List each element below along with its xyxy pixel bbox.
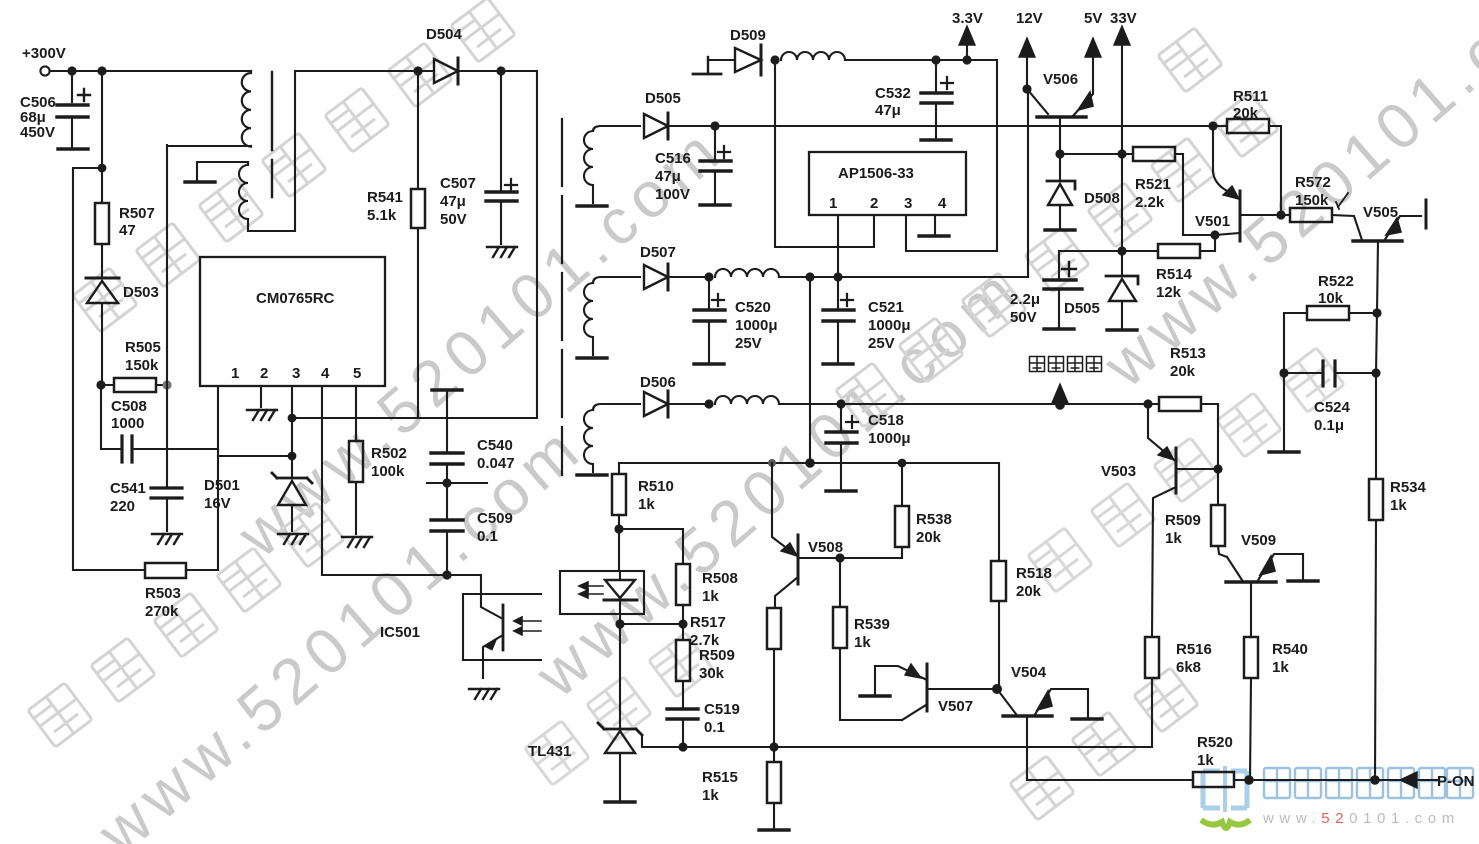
svg-text:R518: R518: [1016, 565, 1052, 582]
junction R540 bottom: [1244, 775, 1254, 785]
svg-text:3.3V: 3.3V: [952, 10, 983, 27]
svg-text:R534: R534: [1390, 479, 1427, 496]
junction R513 left: [1143, 399, 1152, 408]
capacitor C519: [667, 709, 698, 747]
ground bar under W1: [577, 205, 607, 207]
svg-text:C532: C532: [875, 85, 911, 102]
capacitor C521: [823, 277, 854, 362]
junction on +300V rail at R507 branch: [97, 66, 106, 75]
ground bar under W2: [577, 357, 607, 359]
svg-text:2.7k: 2.7k: [690, 632, 720, 649]
junction 747-rail R515: [769, 742, 778, 751]
junction V503 base R509: [1213, 464, 1222, 473]
logo mark: [1203, 766, 1247, 812]
ground under IC501: [469, 689, 499, 699]
junction left of R505: [96, 380, 105, 389]
transformer T core: [271, 72, 273, 197]
wire R502 to ground: [355, 482, 357, 534]
svg-text:R509: R509: [1165, 512, 1201, 529]
wire LED anode from R510 node: [618, 529, 620, 571]
ground bar under C516: [700, 204, 730, 206]
wire feedback winding bottom to top rail: [248, 71, 417, 231]
svg-text:33V: 33V: [1110, 10, 1137, 27]
wire junction to R507: [101, 168, 103, 203]
svg-text:R507: R507: [119, 205, 155, 222]
svg-text:47μ: 47μ: [440, 193, 466, 210]
resistor R520: [1193, 772, 1249, 787]
logo CJK blue text: [1264, 768, 1473, 798]
wire 277-rail to 12V corner: [779, 89, 1028, 277]
svg-text:2.2μ: 2.2μ: [1010, 291, 1040, 308]
IC AP1506-33 box: [809, 152, 966, 215]
svg-text:47μ: 47μ: [655, 168, 681, 185]
svg-text:www.520101.com: www.520101.com: [1262, 810, 1460, 827]
optocoupler LED box: [560, 571, 644, 614]
svg-text:D505: D505: [1064, 300, 1100, 317]
secondary winding W1: [584, 131, 593, 203]
svg-text:2: 2: [870, 195, 878, 212]
capacitor C508: [122, 436, 132, 462]
junction C518 top: [836, 399, 845, 408]
label sound amp CJK: [1030, 357, 1102, 372]
svg-text:C520: C520: [735, 299, 771, 316]
svg-text:D509: D509: [730, 27, 766, 44]
svg-text:C540: C540: [477, 437, 513, 454]
wire pin2 stub and ground: [260, 386, 262, 407]
wire P-ON line right: [1249, 779, 1375, 781]
wire pin1 column to 277-rail: [837, 215, 839, 277]
terminal bar at V505 emitter: [1425, 200, 1428, 228]
wire R509 to C519: [682, 624, 684, 708]
terminal bar above C540: [432, 389, 462, 391]
svg-text:R541: R541: [367, 189, 403, 206]
ground bar under C518: [826, 490, 856, 492]
resistor R522: [1284, 306, 1377, 373]
svg-text:25V: 25V: [868, 335, 895, 352]
svg-text:C509: C509: [477, 510, 513, 527]
resistor R540: [1244, 637, 1258, 780]
ground bar at V507 emitter: [860, 695, 890, 697]
svg-text:50V: 50V: [440, 211, 467, 228]
junction C524 left: [1279, 368, 1288, 377]
svg-text:R511: R511: [1233, 88, 1268, 105]
wire C508 left lead: [101, 385, 122, 449]
svg-text:1k: 1k: [1165, 530, 1182, 547]
capacitor C532: [921, 60, 953, 138]
resistor R538: [895, 463, 909, 558]
ground bar under R515: [759, 829, 789, 831]
wire D503 to node: [101, 303, 103, 384]
svg-text:R521: R521: [1135, 176, 1171, 193]
svg-text:C507: C507: [440, 175, 476, 192]
resistor R517: [767, 608, 781, 747]
svg-text:270k: 270k: [145, 603, 179, 620]
junction V508 base R539: [835, 553, 844, 562]
label arrow sound supply: [1052, 384, 1068, 404]
junction pin3 at D501 line: [288, 452, 297, 461]
wire V505 collector column: [1376, 313, 1377, 479]
svg-text:1: 1: [231, 365, 239, 382]
svg-text:0.1μ: 0.1μ: [1314, 417, 1344, 434]
svg-text:R516: R516: [1176, 641, 1212, 658]
svg-text:TL431: TL431: [528, 743, 571, 760]
wire C508 line to pin1 column: [167, 448, 218, 450]
junction pin3 at 418-line: [288, 414, 297, 423]
ground bar under D508: [1045, 229, 1075, 231]
svg-text:D503: D503: [123, 284, 159, 301]
svg-text:5V: 5V: [1084, 10, 1102, 27]
wire C509 bottom: [446, 531, 448, 575]
junction 33V R514: [1117, 246, 1126, 255]
transistor V503: [1148, 404, 1218, 637]
resistor R508: [676, 564, 690, 605]
wire R508 bottom: [682, 605, 684, 624]
svg-text:V503: V503: [1101, 463, 1136, 480]
junction sound arrow on 404-rail: [1055, 400, 1065, 410]
wire 154-line: [1060, 153, 1131, 155]
svg-text:C521: C521: [868, 299, 904, 316]
svg-text:0.047: 0.047: [477, 455, 515, 472]
junction on +300V rail at C506: [67, 66, 76, 75]
watermark band CJK top-right: [836, 28, 1278, 427]
resistor R503: [145, 563, 186, 578]
wire C524 left stub to bar: [1283, 373, 1285, 450]
zener D505b: [1106, 276, 1138, 328]
capacitor C 2.2u: [1044, 251, 1082, 327]
wire to P-ON arrow: [1375, 779, 1400, 781]
wire W1 top lead: [593, 126, 640, 131]
capacitor C516: [700, 126, 731, 203]
IC CM0765RC box: [200, 257, 385, 386]
capacitor C507: [486, 179, 517, 201]
watermark band CJK right-middle: [1028, 348, 1344, 592]
svg-text:12V: 12V: [1016, 10, 1043, 27]
junction 277-rail C521: [833, 272, 842, 281]
resistor R518: [991, 561, 1006, 601]
wire C507 stem: [500, 71, 502, 190]
svg-text:R514: R514: [1156, 266, 1193, 283]
junction D505 output: [710, 121, 719, 130]
svg-text:V504: V504: [1011, 664, 1047, 681]
svg-text:C508: C508: [111, 398, 147, 415]
inductor L 3.3V: [781, 52, 845, 60]
svg-text:4: 4: [938, 195, 947, 212]
junction left of D504: [413, 66, 422, 75]
svg-text:V506: V506: [1043, 71, 1078, 88]
svg-text:D506: D506: [640, 374, 676, 391]
ground under C541: [152, 534, 182, 544]
wire C541 stem: [166, 449, 168, 487]
junction at 102,168: [98, 164, 107, 173]
wire 33V column to D505 zener: [1121, 154, 1123, 274]
ground bar under C520: [694, 363, 724, 365]
wire C508 right lead: [132, 448, 167, 450]
wire R541 bottom to 418-line: [417, 228, 419, 418]
svg-text:AP1506-33: AP1506-33: [838, 165, 914, 182]
junction 3.3V arrow: [962, 55, 971, 64]
wire LED cathode link: [621, 623, 683, 625]
resistor R534: [1369, 479, 1383, 780]
junction 33V at 154-line: [1117, 149, 1126, 158]
power arrow 3.3V: [959, 26, 975, 60]
svg-text:4: 4: [321, 365, 330, 382]
wire left branch to 73-column: [73, 168, 102, 570]
svg-text:1000μ: 1000μ: [868, 430, 911, 447]
pen tick near R572: [1336, 193, 1348, 209]
junction D509 cathode: [770, 55, 779, 64]
ground bar under 2.2u: [1044, 328, 1074, 330]
svg-text:V505: V505: [1363, 204, 1398, 221]
svg-text:20k: 20k: [916, 529, 942, 546]
svg-text:1k: 1k: [1197, 752, 1214, 769]
logo green brace: [1201, 820, 1250, 828]
transistor V501: [1213, 126, 1281, 241]
resistor R511: [1213, 119, 1281, 215]
svg-text:1k: 1k: [638, 496, 655, 513]
capacitor C540: [431, 453, 463, 464]
resistor R515: [767, 747, 781, 828]
svg-text:R538: R538: [916, 511, 952, 528]
wire C541 to ground: [166, 498, 168, 531]
node +300V terminal: [40, 66, 49, 75]
wire C507 to ground: [500, 201, 502, 244]
junction right of R505: [162, 380, 171, 389]
wire R507 branch down from rail: [101, 71, 103, 168]
svg-text:C524: C524: [1314, 399, 1351, 416]
resistor R502: [349, 441, 363, 482]
wire R507 to D503: [101, 244, 103, 277]
transformer T feedback winding: [239, 162, 248, 231]
wire 167-column primary bottom to R505: [166, 145, 168, 449]
power arrow 5V: [1085, 38, 1101, 57]
ground bar under C506: [58, 148, 88, 150]
transistor V506: [1027, 57, 1093, 154]
junction 463-rail R538: [898, 459, 907, 468]
svg-text:150k: 150k: [125, 357, 159, 374]
transistor V509: [1226, 554, 1303, 637]
svg-text:V501: V501: [1195, 213, 1230, 230]
junction right of D504: [496, 66, 505, 75]
wire 418-line: [292, 417, 537, 419]
optocoupler LED: [579, 571, 637, 624]
junction R534 bottom: [1370, 775, 1380, 785]
ground bar under C521: [823, 363, 853, 365]
svg-text:P-ON: P-ON: [1437, 773, 1475, 790]
transformer secondary core: [561, 119, 563, 475]
wire C540 top stem: [446, 390, 448, 452]
svg-text:D507: D507: [640, 244, 676, 261]
ground bar under TL431: [605, 801, 635, 803]
wire pin5 stub: [355, 386, 357, 441]
svg-text:220: 220: [110, 498, 135, 515]
svg-text:2.2k: 2.2k: [1135, 194, 1165, 211]
wire pin1 column: [217, 386, 219, 570]
ground under R502: [342, 537, 372, 547]
secondary winding W3: [584, 410, 593, 472]
svg-text:0.1: 0.1: [704, 719, 725, 736]
optocoupler IC501 transistor box: [463, 594, 541, 660]
svg-text:IC501: IC501: [380, 624, 420, 641]
resistor R541: [411, 189, 425, 228]
junction C532 top: [931, 55, 940, 64]
capacitor C518: [826, 404, 858, 489]
ground under C507: [487, 247, 517, 257]
wire pin4 line to C509 node: [322, 574, 447, 576]
svg-text:R517: R517: [690, 614, 726, 631]
arrow P-ON: [1400, 772, 1417, 788]
diode D506: [644, 391, 708, 417]
optocoupler IC501 phototransistor: [481, 594, 541, 678]
svg-text:6k8: 6k8: [1176, 659, 1201, 676]
svg-text:R540: R540: [1272, 641, 1308, 658]
svg-text:100k: 100k: [371, 463, 405, 480]
svg-text:3: 3: [904, 195, 912, 212]
junction between C540 and C509: [442, 478, 451, 487]
transistor V505: [1353, 216, 1421, 313]
resistor R539: [833, 558, 902, 720]
transformer T primary winding: [242, 71, 251, 147]
svg-text:1000: 1000: [111, 415, 144, 432]
transistor V507: [875, 664, 996, 720]
secondary winding W2: [584, 283, 593, 355]
ground bar under W3: [577, 474, 607, 476]
wire W3 top lead: [593, 404, 640, 410]
svg-text:R505: R505: [125, 339, 161, 356]
svg-text:1k: 1k: [702, 787, 719, 804]
junction 463-rail bridge: [805, 458, 815, 468]
wire 2.2u cap feed: [1059, 250, 1122, 252]
svg-text:47μ: 47μ: [875, 102, 901, 119]
wire W2 top lead: [593, 277, 640, 283]
junction LED cathode: [615, 619, 624, 628]
watermark band CJK bottom-left: [28, 503, 344, 747]
power arrow 33V: [1114, 26, 1130, 154]
svg-text:C541: C541: [110, 480, 146, 497]
capacitor C524: [1284, 361, 1376, 386]
svg-text:R572: R572: [1295, 174, 1331, 191]
svg-text:R509: R509: [699, 647, 735, 664]
wire pin3 column: [291, 386, 293, 477]
wire D509 column to pin2: [775, 60, 874, 247]
svg-text:R513: R513: [1170, 345, 1206, 362]
resistor R572: [1281, 208, 1362, 240]
junction V506 base node: [1055, 149, 1064, 158]
svg-text:150k: 150k: [1295, 192, 1329, 209]
diode D505: [644, 113, 714, 139]
wire 126-rail to R511: [715, 125, 1212, 127]
diode D509: [735, 45, 761, 75]
resistor R521: [1133, 147, 1214, 235]
wire feedback winding top to ground: [197, 162, 248, 181]
svg-text:www.520101.com: www.520101.com: [521, 251, 1035, 711]
ground bar at V504 emitter: [1072, 718, 1102, 720]
svg-text:R520: R520: [1197, 734, 1233, 751]
junction R522 right: [1372, 308, 1381, 317]
junction 12V collector node: [1022, 84, 1031, 93]
svg-text:0.1: 0.1: [477, 528, 498, 545]
svg-text:D504: D504: [426, 26, 463, 43]
wire 404-rail: [779, 403, 1148, 405]
wire P-ON line: [1027, 779, 1193, 781]
wire 463-rail: [619, 463, 999, 561]
svg-text:R510: R510: [638, 478, 674, 495]
resistor R510: [612, 463, 626, 529]
svg-text:C518: C518: [868, 412, 904, 429]
capacitor C506: [57, 71, 90, 147]
svg-text:V509: V509: [1241, 532, 1276, 549]
inductor L 12V: [715, 269, 779, 277]
ground bar at V509 emitter: [1288, 580, 1318, 582]
svg-text:1k: 1k: [702, 588, 719, 605]
wire R518 column to node: [998, 601, 1000, 689]
svg-text:5: 5: [353, 365, 361, 382]
svg-text:1000μ: 1000μ: [735, 317, 778, 334]
svg-text:25V: 25V: [735, 335, 762, 352]
svg-text:+300V: +300V: [22, 45, 66, 62]
wire node side stub: [427, 482, 487, 484]
junction V501 base node: [1210, 230, 1219, 239]
wire R510 node to R508: [619, 529, 683, 564]
wire D504 output to corner column: [501, 71, 537, 418]
svg-text:R515: R515: [702, 769, 738, 786]
svg-text:C516: C516: [655, 150, 691, 167]
junction R508 bottom: [678, 619, 687, 628]
svg-text:100V: 100V: [655, 186, 690, 203]
junction V504 collector node: [992, 684, 1002, 694]
wire R503 leads: [73, 569, 218, 571]
svg-text:V507: V507: [938, 698, 973, 715]
transistor V508: [772, 463, 902, 608]
ground under D501: [278, 534, 308, 544]
svg-text:1000μ: 1000μ: [868, 317, 911, 334]
shunt regulator TL431: [598, 723, 642, 800]
svg-text:12k: 12k: [1156, 284, 1182, 301]
watermark band CJK bottom-right: [1010, 668, 1198, 820]
diode D504: [418, 58, 501, 84]
junction V501 collector R572: [1276, 210, 1285, 219]
svg-text:50V: 50V: [1010, 309, 1037, 326]
wire pin4 column: [321, 386, 323, 575]
junction R511 left: [1208, 121, 1217, 130]
transistor V504: [997, 689, 1088, 780]
wire +300V rail: [50, 70, 251, 72]
svg-text:20k: 20k: [1233, 105, 1259, 122]
wire pin4 stub: [934, 215, 936, 235]
svg-text:2: 2: [260, 365, 268, 382]
svg-text:5.1k: 5.1k: [367, 207, 397, 224]
svg-text:16V: 16V: [204, 495, 231, 512]
power arrow 12V: [1019, 38, 1035, 89]
capacitor C509: [431, 520, 463, 531]
wire C540 to node: [446, 464, 448, 520]
wire TL431 ref to 747-rail: [642, 735, 1152, 747]
svg-text:30k: 30k: [699, 665, 725, 682]
svg-text:450V: 450V: [20, 124, 55, 141]
zener D501: [272, 473, 312, 531]
capacitor C541: [151, 488, 182, 498]
wire 3.3V rail: [845, 60, 997, 251]
wire primary bottom lead: [167, 145, 251, 147]
wire bridge column 277 to 463 rail: [809, 277, 811, 463]
svg-text:C519: C519: [704, 701, 740, 718]
svg-text:10k: 10k: [1318, 290, 1344, 307]
wire R541 column: [417, 71, 419, 189]
svg-text:D508: D508: [1084, 190, 1120, 207]
resistor R514: [1122, 235, 1215, 258]
ground bar under C524 left: [1269, 451, 1299, 453]
svg-text:20k: 20k: [1170, 363, 1196, 380]
svg-text:20k: 20k: [1016, 583, 1042, 600]
